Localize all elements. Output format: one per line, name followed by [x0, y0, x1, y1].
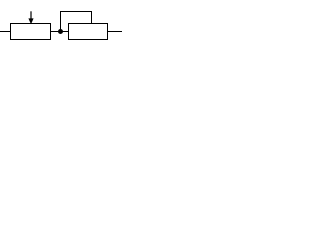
- potentiometer wiper arrow shaft: [30, 11, 32, 19]
- resistor R2 (tapped, IEC box): [69, 24, 108, 40]
- wire: R1 to node A: [51, 31, 69, 33]
- node A junction dot: [58, 29, 63, 34]
- wire: riser from node A, top run, drop to R2 top tap: [61, 12, 92, 32]
- wire: R2 to right edge: [108, 31, 123, 33]
- resistor R1 (potentiometer body, IEC box): [11, 24, 51, 40]
- wire: left lead-in to R1: [0, 31, 11, 33]
- potentiometer wiper arrowhead: [28, 18, 33, 24]
